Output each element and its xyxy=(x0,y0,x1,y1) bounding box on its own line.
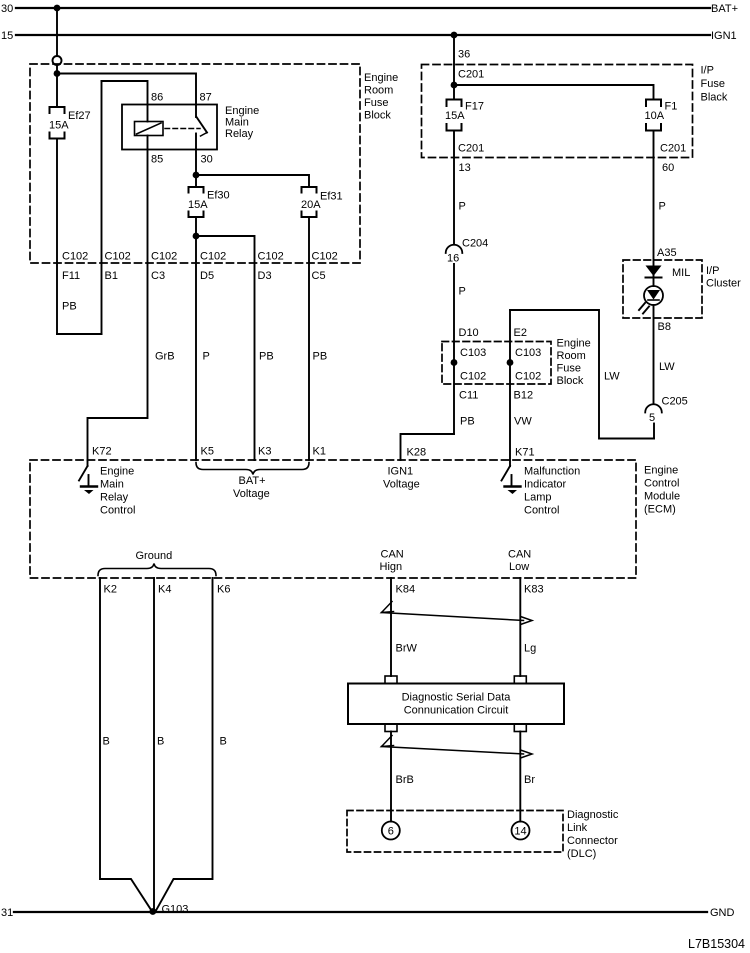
wire K6 xyxy=(156,578,213,911)
svg-text:Fuse: Fuse xyxy=(701,78,725,90)
svg-text:Control: Control xyxy=(524,505,559,517)
svg-text:31: 31 xyxy=(1,907,13,919)
svg-text:Malfunction: Malfunction xyxy=(524,466,580,478)
svg-text:Ef30: Ef30 xyxy=(207,190,230,202)
fuse F17 xyxy=(447,100,462,131)
svg-text:C201: C201 xyxy=(458,143,484,155)
svg-text:Main: Main xyxy=(100,479,124,491)
wire GrB down and jog to K72 xyxy=(88,263,148,466)
wire Ef30 down D5 column xyxy=(195,217,197,460)
svg-text:C102: C102 xyxy=(460,371,486,383)
svg-text:6: 6 xyxy=(388,826,394,838)
wire bottom jog to B1 xyxy=(57,333,102,335)
svg-text:Diagnostic Serial Data: Diagnostic Serial Data xyxy=(402,692,512,704)
terminal bottom right xyxy=(514,724,526,732)
wire junction to F1 xyxy=(454,85,654,99)
connector circle xyxy=(53,56,62,65)
svg-text:K83: K83 xyxy=(524,584,544,596)
connector C204 arc xyxy=(446,245,463,253)
svg-text:G103: G103 xyxy=(162,904,189,916)
relay actuation dashed link xyxy=(165,128,200,130)
svg-text:Link: Link xyxy=(567,822,588,834)
wire jog to K28 xyxy=(401,434,455,460)
svg-text:16: 16 xyxy=(447,253,459,265)
node junction below Ef30 xyxy=(193,233,200,240)
svg-text:B1: B1 xyxy=(105,270,118,282)
svg-text:Diagnostic: Diagnostic xyxy=(567,809,619,821)
svg-text:K71: K71 xyxy=(515,447,535,459)
node junction to F1 xyxy=(451,82,458,89)
svg-text:30: 30 xyxy=(201,154,213,166)
wire K84 down xyxy=(390,578,392,676)
box Engine Room Fuse Block small xyxy=(442,342,551,385)
svg-text:15A: 15A xyxy=(445,110,465,122)
svg-text:Relay: Relay xyxy=(100,492,129,504)
svg-text:C102: C102 xyxy=(258,251,284,263)
svg-text:15: 15 xyxy=(1,30,13,42)
node on rail 15 xyxy=(451,32,458,39)
wire F1 down xyxy=(653,131,655,278)
fuse Ef30 xyxy=(189,187,204,217)
svg-text:Room: Room xyxy=(364,85,393,97)
svg-text:K72: K72 xyxy=(92,446,112,458)
svg-text:Fuse: Fuse xyxy=(364,97,388,109)
svg-text:PB: PB xyxy=(313,351,328,363)
svg-text:Cluster: Cluster xyxy=(706,278,741,290)
svg-text:D3: D3 xyxy=(258,270,272,282)
wire coil top lead xyxy=(147,105,149,122)
svg-text:Module: Module xyxy=(644,491,680,503)
fuse Ef27 xyxy=(50,107,65,139)
svg-text:C201: C201 xyxy=(458,69,484,81)
node junction at 73.5 xyxy=(54,70,61,77)
relay switch blade xyxy=(197,117,208,133)
svg-text:L7B15304: L7B15304 xyxy=(688,937,745,951)
svg-text:VW: VW xyxy=(514,416,532,428)
box Diagnostic Serial Data Communication Circuit xyxy=(348,684,564,725)
svg-text:15A: 15A xyxy=(188,199,208,211)
wire junction to D3 column xyxy=(196,236,255,460)
svg-text:C102: C102 xyxy=(200,251,226,263)
svg-text:C205: C205 xyxy=(662,396,688,408)
svg-text:LW: LW xyxy=(659,361,675,373)
svg-text:P: P xyxy=(659,201,666,213)
svg-text:14: 14 xyxy=(514,826,526,838)
svg-text:Block: Block xyxy=(364,110,391,122)
svg-text:C103: C103 xyxy=(460,347,486,359)
svg-text:D5: D5 xyxy=(200,270,214,282)
svg-text:Engine: Engine xyxy=(557,338,591,350)
svg-text:CAN: CAN xyxy=(381,549,404,561)
wire F11 column down xyxy=(56,139,58,335)
wire below C205 xyxy=(653,424,655,439)
svg-text:C3: C3 xyxy=(151,270,165,282)
terminal bottom left xyxy=(385,724,397,732)
wire below C204 xyxy=(453,264,455,434)
relay switch fixed contact xyxy=(195,105,197,118)
svg-text:P: P xyxy=(203,351,210,363)
svg-text:Engine: Engine xyxy=(100,466,134,478)
twisted pair lower xyxy=(382,736,394,747)
ground symbol K72 xyxy=(88,475,90,486)
svg-text:15A: 15A xyxy=(49,120,69,132)
svg-text:Voltage: Voltage xyxy=(233,488,270,500)
brace Ground xyxy=(98,564,216,576)
svg-text:86: 86 xyxy=(151,92,163,104)
relay K? Engine Main Relay box xyxy=(122,105,217,150)
svg-text:Control: Control xyxy=(644,478,679,490)
box Engine Room Fuse Block xyxy=(30,64,360,263)
wire relay pin30 down xyxy=(195,134,197,187)
svg-text:E2: E2 xyxy=(514,327,527,339)
svg-text:Black: Black xyxy=(701,92,728,104)
svg-text:Relay: Relay xyxy=(225,128,254,140)
lamp rays xyxy=(639,303,645,310)
wire rail 30 BAT+ xyxy=(16,7,710,9)
svg-text:30: 30 xyxy=(1,3,13,15)
svg-text:K1: K1 xyxy=(313,446,326,458)
terminal top left xyxy=(385,676,397,684)
fuse F1 xyxy=(646,100,661,131)
svg-text:Ef31: Ef31 xyxy=(320,191,343,203)
svg-text:F11: F11 xyxy=(62,270,80,282)
wire Ef31 down C5 column xyxy=(308,217,310,460)
wire below lamp xyxy=(653,305,655,404)
svg-text:Main: Main xyxy=(225,117,249,129)
svg-text:PB: PB xyxy=(259,351,274,363)
svg-text:C11: C11 xyxy=(459,390,478,402)
svg-text:B8: B8 xyxy=(658,321,671,333)
relay coil xyxy=(135,122,164,136)
node C103 right xyxy=(507,359,514,366)
svg-text:A35: A35 xyxy=(657,247,677,259)
svg-text:BrB: BrB xyxy=(396,774,414,786)
svg-text:Ef27: Ef27 xyxy=(68,110,91,122)
wire junction to relay pin87 xyxy=(57,74,196,105)
fuse Ef31 xyxy=(302,187,317,217)
svg-text:Br: Br xyxy=(524,774,535,786)
node on rail 30 xyxy=(54,5,61,12)
svg-text:B: B xyxy=(220,736,227,748)
svg-text:Lamp: Lamp xyxy=(524,492,552,504)
wire B1 column up xyxy=(101,81,103,334)
svg-text:I/P: I/P xyxy=(701,65,714,77)
node C103 left xyxy=(451,359,458,366)
svg-text:PB: PB xyxy=(62,301,77,313)
wire MIL return path xyxy=(510,310,654,439)
svg-text:Indicator: Indicator xyxy=(524,479,567,491)
box I/P Cluster xyxy=(623,260,702,318)
svg-text:F17: F17 xyxy=(465,101,484,113)
svg-text:LW: LW xyxy=(604,371,620,383)
svg-text:85: 85 xyxy=(151,154,163,166)
box Diagnostic Link Connector DLC xyxy=(347,811,563,853)
wire BrB down xyxy=(390,732,392,822)
pin 14 circle xyxy=(512,822,530,840)
svg-text:Lg: Lg xyxy=(524,643,536,655)
switch blade K71 xyxy=(502,466,511,481)
connector C205 arc xyxy=(645,404,662,412)
pin 6 circle xyxy=(382,822,400,840)
svg-text:B: B xyxy=(157,736,164,748)
svg-text:Engine: Engine xyxy=(225,105,259,117)
svg-text:(DLC): (DLC) xyxy=(567,848,596,860)
svg-text:C102: C102 xyxy=(151,251,177,263)
svg-text:D10: D10 xyxy=(459,327,479,339)
svg-text:Block: Block xyxy=(557,375,584,387)
svg-text:20A: 20A xyxy=(301,199,321,211)
wire from rail 15 down xyxy=(453,35,455,99)
svg-text:IGN1: IGN1 xyxy=(388,466,414,478)
svg-text:PB: PB xyxy=(460,416,475,428)
svg-text:Low: Low xyxy=(509,561,529,573)
wire K83 down xyxy=(519,578,521,676)
box Engine Control Module ECM xyxy=(30,460,636,578)
svg-text:Ground: Ground xyxy=(136,550,173,562)
svg-text:BAT+: BAT+ xyxy=(239,475,266,487)
svg-text:C102: C102 xyxy=(105,251,131,263)
svg-text:BAT+: BAT+ xyxy=(711,3,738,15)
svg-text:K84: K84 xyxy=(396,584,416,596)
svg-text:C102: C102 xyxy=(515,371,541,383)
lamp MIL xyxy=(653,278,655,287)
svg-text:I/P: I/P xyxy=(706,265,719,277)
svg-text:C102: C102 xyxy=(62,251,88,263)
svg-text:10A: 10A xyxy=(645,110,665,122)
svg-text:5: 5 xyxy=(649,412,655,424)
wire top jog to relay pin86 xyxy=(102,81,148,105)
svg-text:B12: B12 xyxy=(514,390,534,402)
switch blade K72 xyxy=(79,466,88,481)
svg-text:K3: K3 xyxy=(258,446,271,458)
wire below connector xyxy=(56,65,58,107)
diode MIL series xyxy=(646,266,662,277)
svg-text:MIL: MIL xyxy=(672,267,690,279)
svg-text:87: 87 xyxy=(200,92,212,104)
svg-text:C102: C102 xyxy=(312,251,338,263)
svg-text:C5: C5 xyxy=(312,270,326,282)
svg-text:BrW: BrW xyxy=(396,643,418,655)
node junction pin30 xyxy=(193,172,200,179)
svg-text:F1: F1 xyxy=(665,101,678,113)
wire K2 xyxy=(100,578,152,911)
wire rail 15 IGN1 xyxy=(16,34,710,36)
svg-text:K2: K2 xyxy=(104,584,117,596)
svg-text:P: P xyxy=(459,286,466,298)
svg-text:Voltage: Voltage xyxy=(383,479,420,491)
wire coil bottom lead pin85 xyxy=(147,136,149,264)
svg-text:P: P xyxy=(459,201,466,213)
svg-text:CAN: CAN xyxy=(508,549,531,561)
svg-text:K4: K4 xyxy=(158,584,171,596)
svg-text:IGN1: IGN1 xyxy=(711,30,737,42)
svg-text:Engine: Engine xyxy=(364,72,398,84)
wire Br down xyxy=(519,732,521,822)
wire F17 down xyxy=(453,131,455,245)
wire rail 31 GND xyxy=(14,911,707,913)
svg-text:B: B xyxy=(103,736,110,748)
node G103 xyxy=(149,908,156,915)
terminal top right xyxy=(514,676,526,684)
svg-text:Room: Room xyxy=(557,350,586,362)
svg-text:Hign: Hign xyxy=(380,561,403,573)
svg-text:K6: K6 xyxy=(217,584,230,596)
svg-text:60: 60 xyxy=(662,162,674,174)
svg-text:C201: C201 xyxy=(660,143,686,155)
svg-text:Fuse: Fuse xyxy=(557,363,581,375)
svg-text:Connunication Circuit: Connunication Circuit xyxy=(404,705,509,717)
svg-text:GrB: GrB xyxy=(155,351,175,363)
svg-text:GND: GND xyxy=(710,907,735,919)
twisted pair upper xyxy=(382,602,394,613)
svg-text:Engine: Engine xyxy=(644,465,678,477)
svg-text:36: 36 xyxy=(458,49,470,61)
box I/P Fuse Block xyxy=(422,65,693,158)
svg-text:13: 13 xyxy=(459,162,471,174)
svg-text:C103: C103 xyxy=(515,347,541,359)
wire E2 column down xyxy=(509,310,511,466)
svg-text:C204: C204 xyxy=(462,238,488,250)
brace BAT+ Voltage xyxy=(196,463,309,475)
svg-text:Control: Control xyxy=(100,505,135,517)
wire junction to Ef31 xyxy=(196,175,309,187)
svg-text:K28: K28 xyxy=(407,447,427,459)
wire from rail 30 down xyxy=(56,8,58,56)
wire K4 xyxy=(153,578,155,911)
svg-text:Connector: Connector xyxy=(567,835,618,847)
svg-text:K5: K5 xyxy=(201,446,214,458)
ground symbol K71 xyxy=(511,475,513,486)
svg-text:(ECM): (ECM) xyxy=(644,504,676,516)
